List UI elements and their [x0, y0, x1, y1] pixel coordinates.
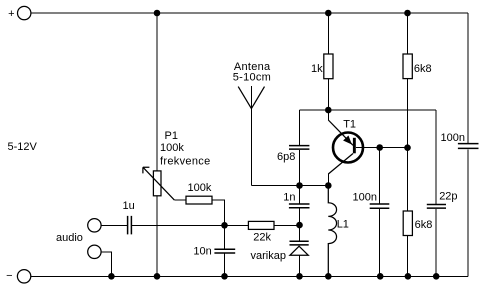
junction ground 22p	[433, 273, 440, 280]
svg-text:6p8: 6p8	[277, 151, 295, 163]
capacitor 100n right plates	[458, 144, 479, 149]
wire emitter lead stub	[327, 110, 329, 121]
svg-text:6k8: 6k8	[414, 63, 432, 75]
inductor L1 coil	[328, 186, 336, 277]
wire collector lead vertical	[327, 174, 329, 186]
resistor 1k body	[324, 54, 333, 79]
svg-text:6k8: 6k8	[415, 219, 433, 231]
resistor 100k body	[186, 196, 212, 204]
resistor 22k body	[248, 221, 274, 229]
wire audio top to 1u	[101, 224, 127, 226]
junction ground 10n	[221, 273, 228, 280]
junction ground main column	[154, 273, 161, 280]
wire antenna down	[250, 86, 252, 186]
wire right column upper (to 100n)	[467, 13, 469, 143]
wire base lead	[356, 147, 408, 149]
wire 100k left lead	[174, 199, 186, 201]
junction ground 6k8	[405, 273, 412, 280]
resistor 6k8 bottom body	[403, 211, 412, 236]
terminal - (supply)	[17, 270, 30, 283]
capacitor 100n middle plates	[370, 204, 390, 208]
junction varicap node	[296, 222, 303, 229]
capacitor 22p plates	[427, 205, 446, 209]
wire 6k8 column lower	[407, 236, 409, 277]
junction ground varicap	[296, 273, 303, 280]
junction top rail / 1k	[325, 10, 332, 17]
junction base / 100n	[376, 144, 383, 151]
junction collector line / 6p8-1n column	[296, 182, 303, 189]
svg-text:audio: audio	[56, 232, 83, 244]
wire 1k column upper	[327, 13, 329, 54]
svg-text:+: +	[8, 8, 14, 20]
svg-text:varikap: varikap	[251, 250, 286, 262]
terminal + (supply)	[18, 6, 31, 19]
wire 6p8 drop	[299, 110, 301, 145]
wire main column below P1	[156, 196, 158, 276]
transistor T1 emitter arrowhead	[344, 136, 351, 144]
wire right column lower	[467, 149, 469, 276]
svg-text:T1: T1	[343, 118, 356, 130]
wire 10n column lower	[224, 254, 226, 277]
wire 100n middle column upper	[379, 148, 381, 204]
capacitor 6p8 plates	[289, 146, 309, 150]
svg-text:100n: 100n	[441, 132, 465, 144]
wire bottom ground rail	[31, 275, 468, 277]
wire 1k column lower	[327, 79, 329, 110]
wire 22p column upper	[435, 110, 437, 204]
wire 1n to varicap	[299, 209, 301, 241]
transistor T1 base bar	[353, 138, 356, 154]
junction ground L1	[325, 273, 332, 280]
wire 6k8 column upper	[407, 13, 409, 54]
antenna prongs	[238, 87, 264, 109]
junction ground 100n middle	[377, 273, 384, 280]
wire 100k right lead	[212, 200, 225, 225]
capacitor 1u plates	[128, 216, 132, 235]
svg-text:P1: P1	[165, 130, 178, 142]
wire top supply rail	[31, 12, 468, 14]
wire 6p8 to 1n	[299, 150, 301, 203]
junction collector / L1	[325, 182, 332, 189]
junction ground audio	[108, 273, 115, 280]
resistor 6k8 top body	[403, 54, 412, 79]
junction emitter node	[325, 107, 332, 114]
junction audio / 100k / 10n node	[221, 222, 228, 229]
wire 6k8 column middle	[407, 79, 409, 211]
svg-text:1k: 1k	[311, 63, 323, 75]
wire 22p column lower	[435, 209, 437, 276]
svg-text:L1: L1	[337, 218, 349, 230]
wire collector node horizontal	[251, 185, 328, 187]
svg-text:100k: 100k	[188, 182, 212, 194]
terminal audio bottom	[88, 245, 101, 258]
svg-text:−: −	[6, 270, 12, 282]
svg-text:100n: 100n	[353, 191, 377, 203]
junction top rail / main column	[154, 10, 161, 17]
junction base / 6k8 divider	[404, 144, 411, 151]
potentiometer P1 wiper arrow	[143, 167, 175, 200]
wire 22k right lead	[274, 224, 300, 226]
terminal audio top	[88, 219, 101, 232]
svg-text:5-10cm: 5-10cm	[233, 72, 271, 84]
svg-text:22k: 22k	[253, 232, 271, 244]
svg-text:1u: 1u	[123, 200, 135, 212]
capacitor 10n plates	[214, 249, 235, 253]
svg-text:100k: 100k	[160, 142, 184, 154]
junction top rail / 6k8	[404, 10, 411, 17]
wire 100n middle column lower	[379, 209, 381, 276]
potentiometer P1 body	[153, 171, 161, 196]
svg-text:frekvence: frekvence	[160, 155, 210, 167]
wire 22k left lead	[225, 224, 249, 226]
wire emitter node horizontal	[300, 109, 437, 111]
svg-text:5-12V: 5-12V	[8, 141, 38, 153]
svg-text:1n: 1n	[283, 192, 295, 204]
capacitor 1n plates	[289, 204, 310, 208]
svg-text:22p: 22p	[439, 190, 457, 202]
transistor T1 collector lead diagonal	[328, 154, 353, 175]
wire varicap to ground	[299, 255, 301, 276]
wire 1u to node	[132, 224, 225, 226]
svg-text:10n: 10n	[193, 246, 211, 258]
transistor T1 emitter lead diagonal	[328, 120, 353, 145]
wire audio bottom to ground	[101, 252, 111, 276]
wire 10n column upper	[224, 225, 226, 248]
varicap D1 cathode bars	[290, 241, 309, 245]
transistor T1 circle	[333, 133, 363, 163]
wire main column above P1	[156, 13, 158, 171]
varicap D1 anode triangle	[290, 246, 308, 255]
